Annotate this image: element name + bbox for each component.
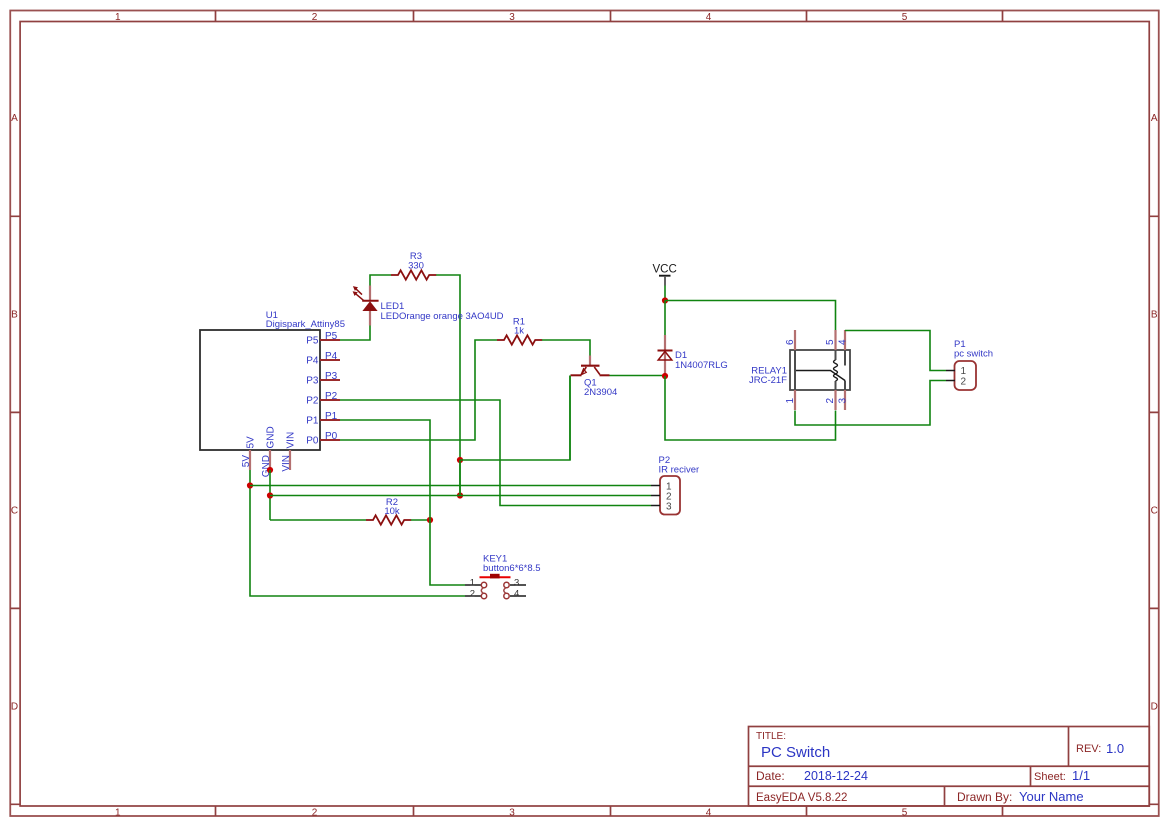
svg-text:5V: 5V <box>246 436 257 449</box>
svg-text:1: 1 <box>961 366 967 377</box>
svg-text:2018-12-24: 2018-12-24 <box>804 769 868 783</box>
svg-text:Sheet:: Sheet: <box>1034 771 1066 783</box>
svg-text:P5: P5 <box>325 331 338 342</box>
svg-text:C: C <box>11 506 18 517</box>
relay RELAY1 JRC-21F <box>749 330 850 410</box>
wire relay pin1 to P1 pin2 <box>795 381 946 426</box>
key KEY1 button6*6*8.5 <box>465 554 541 600</box>
svg-text:5: 5 <box>825 339 836 345</box>
svg-text:Your Name: Your Name <box>1019 789 1084 804</box>
connector P1 pc switch <box>946 339 993 390</box>
transistor Q1 2N3904 <box>571 356 618 399</box>
svg-text:D: D <box>1151 702 1158 713</box>
svg-text:VIN: VIN <box>286 432 297 449</box>
wire D1 node to relay pin2 <box>665 376 836 440</box>
wire 5V rail to P2 pin1 <box>250 485 651 487</box>
U1 pin P3 <box>306 371 340 387</box>
svg-text:B: B <box>1151 310 1158 321</box>
wire U1 P1 to KEY1 pin1 <box>340 420 465 585</box>
resistor R2 10k <box>366 497 411 525</box>
wire R2 right to P1 net <box>411 519 430 521</box>
svg-text:2: 2 <box>470 588 475 599</box>
svg-text:VIN: VIN <box>281 455 292 472</box>
wire GND pin down to R2 <box>269 470 271 520</box>
svg-text:3: 3 <box>838 398 849 404</box>
wire R3 to emitter node <box>436 275 460 496</box>
svg-text:Date:: Date: <box>756 769 785 783</box>
svg-text:P0: P0 <box>325 431 338 442</box>
svg-text:IR reciver: IR reciver <box>659 465 700 476</box>
svg-text:Drawn By:: Drawn By: <box>957 790 1012 804</box>
wire 5V rail: U1 5V pin down and to KEY1 pin2 <box>250 470 465 596</box>
wire VCC down to D1 <box>664 301 666 336</box>
svg-text:1: 1 <box>785 398 796 404</box>
U1 pin P4 <box>306 351 340 367</box>
svg-text:LEDOrange orange 3AO4UD: LEDOrange orange 3AO4UD <box>381 311 504 322</box>
U1 pin P2 <box>306 391 340 407</box>
svg-text:TITLE:: TITLE: <box>756 731 786 742</box>
svg-text:REV:: REV: <box>1076 743 1101 755</box>
svg-text:3: 3 <box>514 577 519 588</box>
svg-text:1/1: 1/1 <box>1072 768 1090 783</box>
svg-text:P1: P1 <box>306 416 319 427</box>
svg-text:5V: 5V <box>241 455 252 468</box>
svg-text:1.0: 1.0 <box>1106 741 1124 756</box>
svg-text:3: 3 <box>666 502 672 513</box>
node VCC junction <box>662 297 668 303</box>
resistor R3 330 <box>391 251 436 280</box>
svg-text:PC Switch: PC Switch <box>761 744 830 761</box>
svg-text:3: 3 <box>509 12 515 23</box>
svg-text:C: C <box>1151 506 1158 517</box>
svg-text:P1: P1 <box>325 411 338 422</box>
svg-text:A: A <box>1151 113 1158 124</box>
wire P5 to LED1 <box>340 326 370 341</box>
svg-text:GND: GND <box>266 426 277 448</box>
LED1 LEDOrange <box>353 286 504 326</box>
svg-text:1N4007RLG: 1N4007RLG <box>675 360 728 371</box>
svg-text:P2: P2 <box>306 396 319 407</box>
svg-text:5: 5 <box>902 808 908 819</box>
resistor R1 1k <box>497 317 542 345</box>
svg-text:P2: P2 <box>325 391 338 402</box>
svg-text:2: 2 <box>312 808 318 819</box>
svg-text:D: D <box>11 702 18 713</box>
wire R1 to Q1 base <box>542 340 590 356</box>
svg-text:4: 4 <box>838 339 849 345</box>
svg-text:6: 6 <box>785 339 796 345</box>
svg-text:P3: P3 <box>306 376 319 387</box>
diode D1 1N4007RLG <box>658 335 728 376</box>
U1 pin P1 <box>306 411 340 427</box>
connector P2 IR reciver <box>651 455 699 514</box>
IC U1 Digispark_Attiny85 <box>200 310 345 450</box>
svg-text:10k: 10k <box>384 506 400 517</box>
svg-text:2N3904: 2N3904 <box>584 387 617 398</box>
node LED branch to GND rail junction <box>457 492 463 498</box>
U1 pin 5V <box>241 436 257 470</box>
U1 pin P0 <box>306 431 340 447</box>
svg-text:5: 5 <box>902 12 908 23</box>
node R2/KEY1 junction <box>427 517 433 523</box>
TITLE BLOCK <box>749 727 1150 807</box>
svg-text:4: 4 <box>706 808 712 819</box>
svg-text:1: 1 <box>115 12 121 23</box>
svg-text:4: 4 <box>706 12 712 23</box>
svg-text:Digispark_Attiny85: Digispark_Attiny85 <box>266 319 345 330</box>
svg-text:EasyEDA V5.8.22: EasyEDA V5.8.22 <box>756 792 847 804</box>
svg-text:1: 1 <box>470 577 475 588</box>
svg-text:P5: P5 <box>306 336 319 347</box>
wire VCC stub <box>664 286 666 301</box>
svg-text:A: A <box>11 113 18 124</box>
wire LED node down <box>459 460 461 496</box>
svg-text:1k: 1k <box>514 326 524 337</box>
wire U1 P2 to P2 pin3 <box>340 400 651 506</box>
node GND pin junction <box>267 467 273 473</box>
net flag VCC <box>653 264 677 286</box>
svg-text:P4: P4 <box>306 356 319 367</box>
svg-text:330: 330 <box>408 261 424 272</box>
wire Q1 collector to D1 node <box>610 375 666 377</box>
svg-text:2: 2 <box>961 377 967 388</box>
svg-text:VCC: VCC <box>653 264 677 276</box>
wire P0 to R1 <box>340 340 497 440</box>
wire GND rail to P2 pin2 <box>270 495 651 497</box>
U1 pin VIN <box>281 432 297 472</box>
wire Q1 emitter down to node <box>569 376 571 461</box>
U1 pin P5 <box>306 331 340 347</box>
svg-text:P0: P0 <box>306 436 319 447</box>
svg-text:P4: P4 <box>325 351 338 362</box>
node GND rail junction <box>267 492 273 498</box>
wire R2 left <box>270 519 366 521</box>
svg-text:pc switch: pc switch <box>954 349 993 360</box>
svg-text:2: 2 <box>312 12 318 23</box>
svg-text:1: 1 <box>115 808 121 819</box>
svg-text:2: 2 <box>825 398 836 404</box>
svg-text:4: 4 <box>514 588 519 599</box>
wire VCC to relay pin5 <box>665 301 836 331</box>
svg-text:P3: P3 <box>325 371 338 382</box>
node D1 anode junction <box>662 373 668 379</box>
svg-text:button6*6*8.5: button6*6*8.5 <box>483 563 541 574</box>
wire emitter to node <box>460 376 570 461</box>
U1 pin GND <box>261 426 277 477</box>
svg-text:B: B <box>11 310 18 321</box>
node R3/emitter junction <box>457 457 463 463</box>
wire relay pin4 to P1 pin1 <box>845 331 946 371</box>
node 5V junction <box>247 482 253 488</box>
svg-text:3: 3 <box>509 808 515 819</box>
wire LED1 to R3 <box>370 275 391 286</box>
svg-text:JRC-21F: JRC-21F <box>749 375 787 386</box>
